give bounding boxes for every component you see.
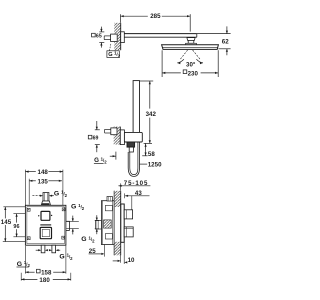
head shower plate (side view)	[162, 45, 219, 50]
svg-text:342: 342	[146, 111, 157, 118]
screw bottom-left	[27, 237, 30, 240]
bottom control knob (front)	[40, 227, 51, 238]
screw top-right	[62, 208, 65, 211]
wall section (hand shower)	[114, 127, 121, 145]
svg-text:10: 10	[128, 257, 135, 264]
dimension 135	[29, 178, 62, 204]
svg-text:148: 148	[38, 169, 49, 176]
flange of shower arm	[121, 32, 125, 43]
side port tab (front right)	[66, 221, 70, 230]
dimension square 158 (plate)	[25, 246, 66, 277]
ball joint of head shower	[186, 38, 197, 45]
svg-text:1250: 1250	[148, 162, 162, 169]
trim plate (side view)	[121, 204, 124, 242]
svg-text:62: 62	[222, 39, 229, 46]
shower holder body	[124, 132, 142, 142]
dimension 342 (hand shower length)	[140, 81, 157, 143]
supply pipe stub (hand shower)	[105, 129, 111, 133]
svg-text:180: 180	[39, 277, 50, 284]
dimension square 65 (wall union)	[92, 27, 105, 48]
dimension 58 (holder to hose)	[142, 143, 155, 158]
shower arm	[124, 34, 197, 38]
dimension 145 (left)	[1, 207, 25, 242]
wall section (head shower)	[114, 23, 121, 50]
port size arrows (bottom ports)	[36, 249, 61, 251]
wall union fitting (hand shower)	[111, 128, 117, 135]
G 1/2 label (hand shower union)	[94, 152, 116, 165]
svg-text:230: 230	[188, 71, 199, 78]
supply pipe stub (head shower)	[104, 36, 114, 40]
wall union fitting (head shower)	[111, 34, 118, 41]
dimension 96 (left inner)	[13, 214, 25, 237]
dimension 75-105 (embedment depth)	[118, 180, 150, 191]
dimension 180 (outer)	[21, 273, 71, 284]
housing middle hatched block	[104, 220, 112, 228]
svg-text:145: 145	[1, 219, 12, 226]
dimension 285 (arm projection)	[121, 13, 191, 31]
dimension 43 (knob projection)	[125, 190, 150, 210]
G 1/2 label (right port)	[66, 203, 85, 234]
svg-text:75-105: 75-105	[124, 180, 149, 187]
dimension 62 (head height)	[197, 26, 231, 55]
dimension square 230 (head width)	[162, 50, 218, 77]
dimension 148	[25, 169, 63, 205]
svg-text:96: 96	[13, 224, 19, 230]
svg-text:58: 58	[148, 151, 155, 158]
svg-text:135: 135	[38, 178, 49, 185]
top connection port (front)	[41, 193, 50, 205]
divider bar between knobs	[40, 224, 51, 226]
dimension 25 (bottom back)	[89, 245, 105, 257]
trim plate front	[25, 205, 66, 245]
back port stub (side view)	[95, 220, 101, 229]
bottom knob (side view)	[124, 227, 133, 237]
svg-text:158: 158	[41, 270, 52, 277]
svg-text:30°: 30°	[186, 61, 196, 68]
G 1/2 label (back port)	[81, 215, 99, 243]
G 1/2 label (bottom port A)	[17, 260, 31, 268]
top control knob (front)	[38, 211, 52, 220]
G 1/2 label with arrows (top port)	[32, 190, 67, 198]
leader 1250 (hose length)	[140, 162, 162, 169]
svg-text:65: 65	[96, 33, 102, 39]
shower hose loop	[128, 143, 139, 177]
hose nut below holder	[127, 142, 135, 152]
spray angle dashed lines	[180, 50, 200, 59]
G 1/2 boxed label (head shower union)	[107, 44, 121, 59]
housing bottom inner detail	[105, 234, 112, 239]
svg-text:43: 43	[135, 190, 142, 197]
screw bottom-right	[62, 236, 65, 239]
bottom port B (front)	[52, 245, 56, 253]
rough-in housing (side view)	[101, 201, 114, 245]
holder wall flange	[120, 130, 124, 145]
dimension 10 (plate clearance)	[113, 242, 135, 264]
wall section (side view)	[114, 191, 121, 256]
spray angle arc arrows	[177, 59, 203, 64]
screw top-left	[27, 208, 30, 211]
svg-text:69: 69	[93, 136, 99, 142]
housing top inner detail	[105, 205, 112, 210]
svg-text:285: 285	[150, 13, 161, 20]
bottom port A (front)	[41, 245, 45, 253]
top knob (side view)	[124, 210, 132, 219]
dimension square 69 (hand shower union)	[88, 121, 100, 152]
hand shower stick	[133, 81, 139, 133]
top port stub (side view)	[107, 197, 112, 202]
